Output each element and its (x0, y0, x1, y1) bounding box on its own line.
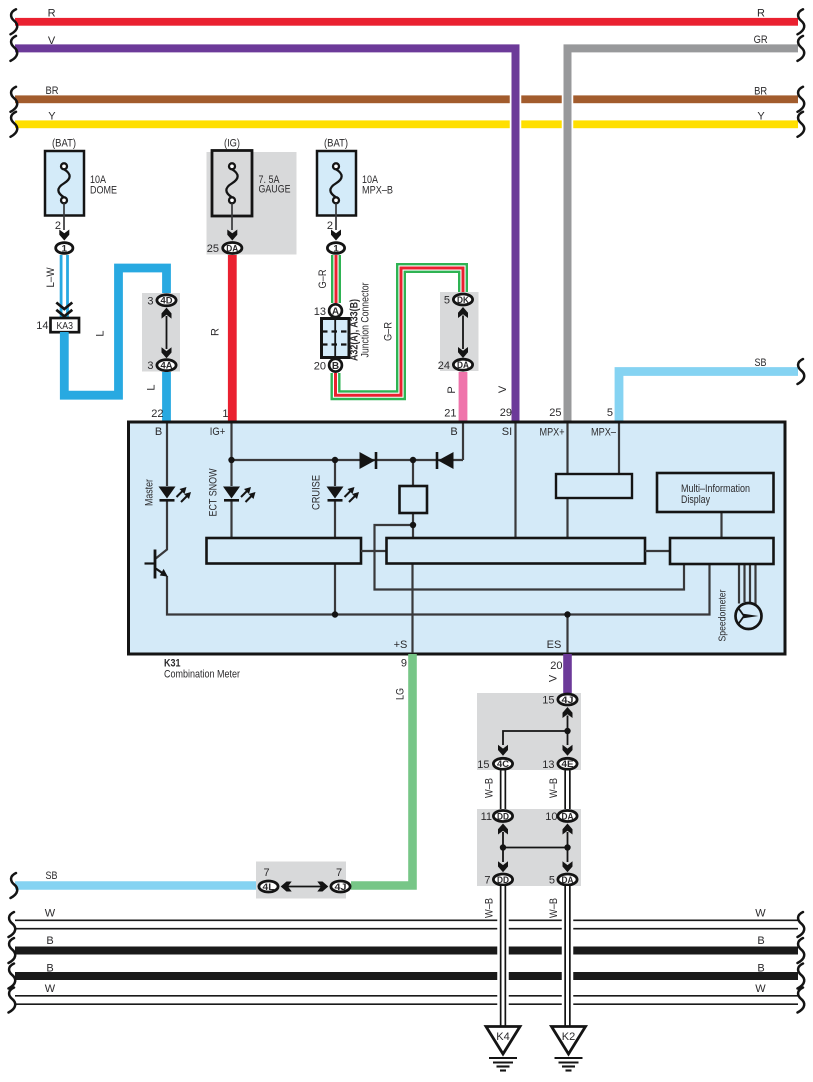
svg-text:22: 22 (151, 408, 163, 420)
dart down toward DA (458, 347, 468, 358)
svg-text:BR: BR (46, 85, 59, 97)
svg-text:KA3: KA3 (56, 321, 73, 332)
wire node to 4E (567, 731, 569, 745)
break symbol B left (9, 938, 16, 963)
wire SB right (MPX-) (619, 372, 798, 423)
dart up toward DA (563, 824, 573, 835)
svg-text:DA: DA (562, 875, 574, 886)
dart up toward 4J (563, 707, 573, 718)
svg-text:V: V (497, 385, 509, 393)
break symbol GR right (798, 36, 805, 61)
svg-text:IG+: IG+ (210, 426, 226, 438)
wire L-W double line (60, 255, 69, 318)
wire SB bottom left (15, 881, 259, 890)
svg-text:DD: DD (497, 811, 509, 822)
diode D2 (438, 452, 454, 469)
svg-text:R: R (210, 328, 222, 336)
svg-text:Combination Meter: Combination Meter (164, 669, 240, 681)
svg-text:CRUISE: CRUISE (311, 475, 323, 510)
fuse 10A MPX-B box (317, 151, 356, 216)
svg-text:(BAT): (BAT) (52, 137, 76, 149)
wire transceiver to main box (566, 498, 568, 538)
break symbol W2 right (798, 988, 805, 1013)
svg-text:7: 7 (484, 875, 490, 887)
fuse 7.5A GAUGE box (212, 151, 252, 217)
svg-text:7: 7 (336, 867, 342, 879)
wire MID to gauge box (720, 512, 722, 538)
svg-text:21: 21 (444, 408, 456, 420)
svg-text:10: 10 (545, 811, 557, 823)
break symbol W2 left (9, 988, 16, 1013)
svg-text:4D: 4D (161, 296, 173, 307)
shaded area GAUGE (207, 152, 297, 255)
svg-text:B: B (46, 963, 53, 975)
connector oval DA (gauge) (223, 243, 242, 254)
Multi-Information Display box (657, 473, 774, 512)
wire SI column (514, 424, 516, 539)
wire internal bus y460 (232, 459, 464, 461)
svg-text:P: P (446, 386, 458, 393)
svg-text:L–W: L–W (45, 267, 57, 288)
link line 4D-4A (166, 316, 168, 349)
svg-text:W–B: W–B (548, 778, 560, 798)
svg-text:BR: BR (754, 86, 767, 98)
svg-text:13: 13 (542, 759, 554, 771)
svg-text:25: 25 (549, 407, 561, 419)
svg-text:LG: LG (395, 688, 407, 700)
LED CRUISE (327, 487, 360, 503)
svg-text:DA: DA (562, 811, 574, 822)
node dot DD branch (500, 844, 506, 850)
svg-text:Speedometer: Speedometer (717, 589, 729, 641)
svg-text:MPX–B: MPX–B (362, 185, 393, 197)
wire W-B 4E to DA (564, 771, 570, 810)
wire ECT SNOW LED to box (230, 501, 232, 538)
connector oval 4A (157, 360, 176, 371)
svg-text:W–B: W–B (548, 898, 560, 918)
LED Master (159, 487, 192, 503)
wire P from DA to pin 21 (459, 372, 468, 422)
svg-text:G–R: G–R (383, 322, 395, 341)
svg-text:Display: Display (681, 494, 710, 506)
speedometer symbol (736, 603, 762, 629)
node dot ES/emitter bus (564, 611, 570, 617)
wire DD to node (502, 832, 504, 848)
svg-text:+S: +S (394, 639, 408, 651)
svg-text:B: B (46, 935, 53, 947)
svg-text:W: W (755, 908, 766, 920)
svg-text:W–B: W–B (484, 898, 496, 918)
svg-text:11: 11 (481, 811, 492, 823)
wire DA to node (567, 832, 569, 848)
link box1-box2 (361, 550, 387, 552)
svg-text:L: L (146, 384, 158, 390)
connector oval 4J (floor) (331, 881, 350, 892)
svg-text:4C: 4C (497, 759, 509, 770)
square component (400, 486, 428, 513)
svg-text:Junction Connector: Junction Connector (360, 282, 372, 357)
break symbol W left (9, 912, 16, 937)
svg-text:GAUGE: GAUGE (259, 184, 291, 196)
LED ECT SNOW (223, 487, 256, 503)
svg-text:4L: 4L (263, 882, 275, 893)
node dot IG+/bus (228, 457, 234, 463)
svg-text:14: 14 (36, 320, 48, 332)
wire 4J to node (567, 716, 569, 732)
wire R from DA to pin 1 (228, 255, 237, 422)
pin 2 lead of fuse DOME (63, 203, 65, 230)
wire +S column (411, 564, 413, 654)
connector block DK/DA background (440, 292, 479, 371)
combination meter block K31 (129, 422, 786, 654)
dart down toward 4C (498, 745, 508, 756)
wire W-B 4C to DD (500, 771, 506, 810)
wire Y bus (15, 120, 798, 128)
break symbol Y right (798, 112, 805, 137)
svg-text:5: 5 (444, 295, 450, 307)
node dot DA branch (564, 844, 570, 850)
svg-text:V: V (548, 674, 560, 682)
wire L from 4A to pin 22 (162, 372, 171, 422)
dart into connector 1 (331, 230, 341, 241)
svg-text:ECT SNOW: ECT SNOW (208, 468, 220, 517)
connector oval DK (453, 294, 472, 305)
svg-text:B: B (757, 935, 764, 947)
svg-text:ES: ES (547, 639, 562, 651)
svg-text:B: B (450, 426, 457, 438)
svg-text:(IG): (IG) (224, 137, 240, 149)
break symbol B right (798, 938, 805, 963)
pin 2 lead of fuse MPX-B (335, 203, 337, 230)
svg-text:SI: SI (502, 426, 512, 438)
svg-text:Y: Y (48, 111, 56, 123)
svg-text:5: 5 (549, 875, 555, 887)
svg-text:DD: DD (497, 875, 509, 886)
wire node to sub-box path (375, 525, 685, 590)
wire W bus 1 (15, 920, 798, 928)
ground K2 (552, 1027, 586, 1055)
wire node to DA(5) (567, 848, 569, 863)
dart into connector 1 (59, 230, 69, 241)
junction connector box A32(A),A33(B) (322, 319, 350, 358)
link line 4L-4J with darts (283, 886, 327, 888)
dart up toward DK (458, 307, 468, 318)
wire GR bus from MPX+ drop to right (568, 48, 799, 422)
wire LED Master to transistor collector (156, 501, 167, 559)
wire W-B DA(5) to ground K2 (562, 886, 574, 1026)
wire pin22 to LED Master (166, 424, 168, 487)
wire CRUISE column lower (334, 564, 336, 615)
svg-text:B: B (332, 361, 339, 372)
link box2-box3 (645, 550, 670, 552)
dart into connector DA (227, 230, 237, 241)
wire square to node (412, 513, 414, 538)
link line DD-DA nodes (503, 847, 568, 849)
svg-text:20: 20 (314, 360, 326, 372)
break symbol SB right (798, 359, 805, 384)
svg-text:29: 29 (500, 407, 512, 419)
connector oval DA (453, 359, 472, 370)
svg-text:5: 5 (607, 407, 613, 419)
svg-text:L: L (95, 330, 107, 336)
wire speedometer leads (738, 564, 740, 604)
svg-text:W–B: W–B (484, 778, 496, 798)
node dot CRUISE/emitter bus (332, 611, 338, 617)
svg-text:DOME: DOME (90, 185, 117, 197)
dart down toward 4E (563, 745, 573, 756)
wire BR bus (15, 95, 798, 103)
break symbol BR right (798, 87, 805, 112)
break symbol SB left (11, 873, 18, 898)
svg-text:DA: DA (457, 360, 469, 371)
internal box 1 (207, 538, 362, 564)
svg-text:SB: SB (46, 870, 58, 882)
connector block DD/DA background (477, 809, 581, 886)
wire W-B DD(7) to ground K4 (497, 886, 509, 1026)
svg-text:13: 13 (314, 306, 326, 318)
wire pin1 IG+ down (230, 424, 232, 487)
break symbol R right (798, 9, 805, 34)
connector block 4D/4A background (142, 293, 180, 372)
svg-text:K4: K4 (496, 1031, 509, 1043)
break symbol BR left (11, 87, 18, 112)
svg-text:3: 3 (147, 360, 153, 372)
svg-text:4E: 4E (562, 759, 574, 770)
wire emitter bus y614.5 (167, 564, 710, 615)
break symbol B2 right (798, 964, 805, 989)
double chevron into KA3 (56, 303, 72, 317)
node dot CRUISE/bus (332, 457, 338, 463)
break symbol W right (798, 912, 805, 937)
connector block 4J/4C/4E background (477, 693, 581, 770)
svg-text:A: A (332, 306, 339, 317)
wire W bus 2 (15, 996, 798, 1004)
connector oval 4L (259, 881, 278, 892)
wire node to DD(7) (502, 848, 504, 863)
ground K4 (486, 1027, 520, 1055)
node dot 4J branch (564, 728, 570, 734)
connector oval 1 (MPX-B) (327, 243, 344, 254)
wire MPX+ column to transceiver (566, 424, 568, 475)
connector oval 1 (DOME) (56, 243, 73, 254)
wire G-R from fuse to junction A (331, 255, 341, 303)
svg-text:SB: SB (755, 357, 767, 369)
svg-text:V: V (48, 35, 56, 47)
svg-text:15: 15 (477, 759, 489, 771)
wire R bus (top) (15, 18, 798, 26)
svg-text:W: W (45, 983, 56, 995)
dart down toward 4A (162, 347, 172, 358)
svg-text:MPX–: MPX– (591, 427, 617, 439)
transistor Q (meter illumination) (145, 550, 165, 579)
node dot square/bus (410, 457, 416, 463)
wire pin21 B down to bus (462, 424, 464, 461)
svg-text:G–R: G–R (317, 269, 329, 288)
svg-text:Y: Y (757, 111, 765, 123)
svg-text:B: B (757, 963, 764, 975)
svg-text:Master: Master (144, 479, 156, 506)
svg-text:4A: 4A (161, 361, 173, 372)
internal box 3 (670, 538, 774, 564)
svg-text:4J: 4J (562, 695, 574, 706)
svg-text:4J: 4J (335, 882, 347, 893)
connector KA3 (51, 318, 80, 332)
dart up toward DD (498, 824, 508, 835)
wire B bus 2 (15, 972, 798, 980)
node dot below square (410, 522, 416, 528)
svg-text:DA: DA (226, 243, 238, 254)
wire CRUISE LED to box (334, 501, 336, 538)
link line DK-DA (462, 316, 464, 350)
svg-text:24: 24 (438, 360, 450, 372)
svg-text:B: B (155, 426, 162, 438)
break symbol V left (11, 36, 18, 61)
connector block 4L/4J background (256, 862, 346, 899)
dart down toward DD(7) (498, 861, 508, 872)
pin lead of fuse GAUGE (231, 203, 233, 230)
svg-text:25: 25 (207, 243, 219, 255)
MPX transceiver box (556, 474, 632, 498)
dart up toward 4D (162, 308, 172, 319)
svg-text:MPX+: MPX+ (540, 427, 565, 439)
svg-text:3: 3 (147, 295, 153, 307)
svg-text:DK: DK (457, 295, 469, 306)
wire MPX- column (618, 424, 620, 475)
diode D1 (360, 452, 376, 469)
svg-text:2: 2 (327, 220, 333, 232)
wire ES column (566, 615, 568, 654)
svg-text:W: W (755, 983, 766, 995)
wire L staircase from KA3 to 4D (64, 268, 166, 395)
break symbol Y left (11, 112, 18, 137)
wire V bus from left to SI drop (15, 48, 516, 422)
svg-text:GR: GR (754, 34, 768, 46)
connector oval 4D (157, 295, 176, 306)
break symbol R left (11, 9, 18, 34)
dart down toward DA(5) (563, 861, 573, 872)
svg-text:9: 9 (401, 658, 407, 670)
svg-text:1: 1 (62, 243, 68, 254)
wire B bus 1 (15, 947, 798, 955)
svg-text:15: 15 (542, 695, 554, 707)
svg-text:R: R (48, 8, 56, 20)
wire G-R from junction B to DK (336, 268, 464, 395)
wire LG from +S to 4J (351, 654, 413, 886)
svg-text:7: 7 (263, 867, 269, 879)
svg-text:K2: K2 (562, 1031, 575, 1043)
svg-text:(BAT): (BAT) (324, 137, 348, 149)
svg-text:1: 1 (222, 408, 228, 420)
svg-text:R: R (757, 8, 765, 20)
svg-text:20: 20 (550, 660, 562, 672)
internal box 2 (387, 538, 646, 564)
wire node to 4C (503, 731, 568, 745)
wire CRUISE column upper (334, 460, 336, 486)
svg-text:W: W (45, 908, 56, 920)
wire square column upper (412, 460, 414, 486)
wire V from ES to 4J (563, 654, 572, 694)
break symbol B2 left (9, 964, 16, 989)
svg-text:1: 1 (333, 243, 339, 254)
